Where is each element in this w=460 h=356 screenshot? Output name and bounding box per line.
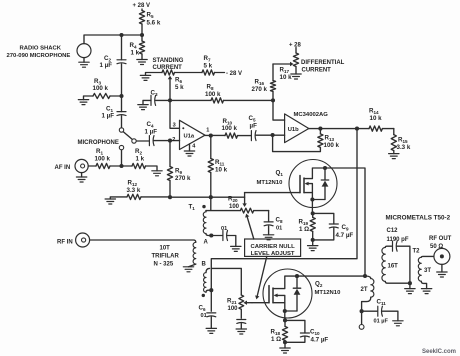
svg-text:50 Ω: 50 Ω xyxy=(430,244,443,250)
body diode of Q1 xyxy=(321,168,328,200)
node (R9/R12/carrier junction) xyxy=(168,195,172,199)
svg-text:2: 2 xyxy=(172,137,175,143)
op-amp U1a xyxy=(180,120,206,149)
node (R3/C2/C1 junction) xyxy=(119,94,123,98)
ground (microphone) xyxy=(83,58,85,63)
svg-text:C12: C12 xyxy=(387,228,399,234)
node (drains / 2T top) xyxy=(363,274,367,278)
capacitor C2 xyxy=(117,60,126,64)
svg-text:DIFFERENTIAL: DIFFERENTIAL xyxy=(301,60,345,66)
wire (C1 to switch) xyxy=(121,116,123,128)
node (output/R14 junction) xyxy=(355,127,359,131)
svg-text:1 Ω: 1 Ω xyxy=(299,226,309,233)
resistor R13 xyxy=(319,129,321,134)
svg-text:+ 28: + 28 xyxy=(289,43,302,49)
resistor R14 xyxy=(369,126,382,131)
capacitor C6 xyxy=(210,290,212,311)
potentiometer R21 xyxy=(239,295,244,309)
potentiometer R17 xyxy=(295,48,297,54)
node (output/R13 junction) xyxy=(318,127,322,131)
phasing dot (T1 winding B) xyxy=(202,294,205,297)
resistor R8 xyxy=(211,98,224,103)
node (R18/C10 top) xyxy=(283,318,287,322)
svg-text:B: B xyxy=(202,262,207,268)
svg-text:1: 1 xyxy=(206,127,209,133)
capacitor C12 xyxy=(393,241,398,251)
resistor R1 xyxy=(88,165,96,167)
wire (R6 to R7) xyxy=(175,72,203,74)
capacitor C1 xyxy=(117,112,126,116)
ground (right of C11) xyxy=(393,321,403,326)
svg-text:1 µF: 1 µF xyxy=(100,62,113,69)
node (R18/C10 bottom) xyxy=(283,340,287,344)
resistor R18 xyxy=(284,320,286,326)
svg-text:R15: R15 xyxy=(398,137,408,145)
phasing dot (T1 winding A) xyxy=(202,205,205,208)
svg-text:SeekIC.com: SeekIC.com xyxy=(422,349,456,355)
resistor R16 xyxy=(272,64,274,81)
svg-text:100 k: 100 k xyxy=(222,125,238,132)
pin 4 stub and label xyxy=(189,144,191,151)
svg-text:R8: R8 xyxy=(207,84,214,92)
wire (carrier line to R20 wiper) xyxy=(170,196,245,198)
svg-text:100: 100 xyxy=(229,204,240,210)
svg-text:4.7 µF: 4.7 µF xyxy=(336,232,354,239)
node (R19/C9 bottom) xyxy=(311,238,315,242)
node (Q2 source) xyxy=(283,309,287,313)
svg-text:100 k: 100 k xyxy=(324,142,340,149)
svg-text:C10: C10 xyxy=(310,329,320,337)
node (R1/R2/switch junction) xyxy=(119,164,123,168)
resistor R2 xyxy=(122,165,133,167)
resistor R7 xyxy=(202,70,215,75)
svg-text:100 k: 100 k xyxy=(95,156,111,163)
annotation arrow (to R20) xyxy=(247,217,254,239)
svg-text:100: 100 xyxy=(228,306,239,312)
wire (C4 to U1a pin 2) xyxy=(154,140,180,142)
svg-text:µF: µF xyxy=(250,123,258,130)
node (winding A bottom) xyxy=(209,233,213,237)
svg-text:10 k: 10 k xyxy=(370,115,383,122)
svg-text:T2: T2 xyxy=(413,249,421,255)
resistor R19 xyxy=(312,213,314,217)
winding B of T1 xyxy=(206,268,210,272)
node (Q1 drain / diode) xyxy=(323,166,327,170)
resistor R9 xyxy=(169,141,171,167)
svg-text:01: 01 xyxy=(221,226,227,232)
node (R19/C9 top) xyxy=(311,211,315,215)
ground (below R21) xyxy=(240,324,242,329)
node (C2 tap on rail) xyxy=(119,33,123,37)
ground (below C6) xyxy=(210,317,212,328)
svg-text:MC34002AG: MC34002AG xyxy=(294,112,329,118)
svg-text:Q2: Q2 xyxy=(315,281,323,289)
resistor R12 xyxy=(110,197,127,199)
svg-text:01: 01 xyxy=(276,226,282,232)
svg-text:CARRIER NULL: CARRIER NULL xyxy=(251,244,296,250)
svg-text:MICROMETALS T50-2: MICROMETALS T50-2 xyxy=(386,215,451,222)
wire (mic top to +28V rail) xyxy=(84,35,142,44)
svg-text:R18: R18 xyxy=(271,329,281,337)
svg-text:1190 pF: 1190 pF xyxy=(387,237,409,243)
svg-text:1 k: 1 k xyxy=(136,156,145,163)
svg-text:1 Ω: 1 Ω xyxy=(271,336,281,343)
wire (audio tap to R21) xyxy=(211,268,241,295)
resistor R4 xyxy=(141,35,143,41)
svg-text:5 k: 5 k xyxy=(204,63,213,70)
svg-text:RF OUT: RF OUT xyxy=(429,236,452,242)
svg-text:3: 3 xyxy=(173,123,176,129)
ground (AF IN shell) xyxy=(81,173,83,177)
winding A of T1 xyxy=(205,211,207,212)
svg-text:R11: R11 xyxy=(215,159,225,167)
svg-text:R5: R5 xyxy=(147,12,154,20)
wire (U1b output) xyxy=(309,128,369,130)
capacitor C10 xyxy=(285,320,305,333)
svg-text:MICROPHONE: MICROPHONE xyxy=(78,140,119,146)
annotation arrow (to R21) xyxy=(257,256,267,296)
wire (Q1 gate line) xyxy=(245,192,300,194)
ground (below R4) xyxy=(137,60,147,65)
svg-text:5.6 k: 5.6 k xyxy=(147,20,161,27)
svg-text:R4: R4 xyxy=(130,42,137,50)
node (winding B bottom / C6) xyxy=(209,288,213,292)
wire (Q2 source to diode) xyxy=(285,310,297,312)
svg-text:T1: T1 xyxy=(189,204,196,212)
wire (Q2 drain to 2T winding) xyxy=(297,275,365,277)
ground (RF winding) xyxy=(183,267,193,272)
capacitor .01 (winding A bypass) xyxy=(223,231,228,241)
node (U1b inverting input node) xyxy=(271,133,275,137)
svg-text:R7: R7 xyxy=(204,55,211,63)
node (Q2 drain / diode) xyxy=(295,274,299,278)
capacitor C9 xyxy=(313,213,334,224)
svg-text:270 k: 270 k xyxy=(175,175,191,182)
wire (winding A bottom to bypass cap) xyxy=(206,234,222,236)
svg-text:R1: R1 xyxy=(96,148,103,156)
node (R11/T1 junction) xyxy=(209,195,213,199)
capacitor C3 xyxy=(151,95,156,105)
resistor R15 xyxy=(393,129,395,135)
svg-text:10T: 10T xyxy=(160,246,171,252)
winding 16T of T2 xyxy=(385,246,391,247)
ground (RF OUT shell) xyxy=(441,264,443,272)
wire (switch throw to R1/R2 node) xyxy=(121,150,123,166)
ground (right of R2) xyxy=(152,171,162,176)
resistor R5 xyxy=(141,9,143,11)
svg-text:C4: C4 xyxy=(147,121,154,129)
connector RF OUT xyxy=(434,248,450,264)
svg-text:1 µF: 1 µF xyxy=(145,129,158,136)
resistor R11 xyxy=(210,136,212,159)
connector AF IN xyxy=(75,159,88,172)
ground (left of C3) xyxy=(143,100,151,104)
svg-text:R14: R14 xyxy=(369,108,379,116)
svg-text:R16: R16 xyxy=(255,79,265,87)
ground (below R19) xyxy=(312,240,314,246)
svg-text:270 k: 270 k xyxy=(252,86,268,93)
wire (bypass cap to ground) xyxy=(228,236,236,247)
ground (below R17) xyxy=(291,74,301,79)
wire (bias line down to pin 3) xyxy=(170,100,180,128)
svg-text:+ 28 V: + 28 V xyxy=(133,3,151,9)
node (R6 wiper / pin3 tap) xyxy=(168,98,172,102)
svg-text:MT12N10: MT12N10 xyxy=(257,180,284,186)
svg-text:RADIO SHACK: RADIO SHACK xyxy=(20,46,62,52)
node (R8/R16/U1b junction) xyxy=(271,98,275,102)
svg-text:U1a: U1a xyxy=(184,134,195,140)
svg-text:C11: C11 xyxy=(377,299,387,307)
ground (below C8) xyxy=(268,226,270,235)
svg-text:N - 325: N - 325 xyxy=(154,262,174,268)
wiper of R21 (to Q2 gate) xyxy=(247,302,252,304)
wire (Q1 source down) xyxy=(311,200,313,214)
capacitor (below R21) xyxy=(237,320,246,324)
svg-text:5 k: 5 k xyxy=(175,84,184,91)
resistor R3 xyxy=(93,93,110,98)
wire (Q2 source down) xyxy=(284,311,286,320)
svg-text:C9: C9 xyxy=(342,224,349,232)
svg-text:C6: C6 xyxy=(199,305,206,313)
capacitor C8 xyxy=(268,211,270,222)
ground (below R15) xyxy=(389,154,399,159)
svg-text:CURRENT: CURRENT xyxy=(302,68,332,74)
transistor Q1 (MT12N10) xyxy=(289,160,337,208)
svg-text:TRIFILAR: TRIFILAR xyxy=(152,254,180,260)
wire (U1b output down and to winding B top) xyxy=(211,129,357,291)
svg-text:- 28 V: - 28 V xyxy=(226,71,242,77)
node (2T bottom / C11) xyxy=(360,309,364,313)
winding 3T of T2 xyxy=(421,255,434,258)
wire (carrier node down to winding A) xyxy=(206,197,240,210)
svg-text:2T: 2T xyxy=(361,287,368,293)
svg-text:R19: R19 xyxy=(299,219,309,227)
wiper of R6 (arrow up from bias line) xyxy=(169,79,171,100)
svg-text:3.3 k: 3.3 k xyxy=(127,187,141,194)
wire (RF winding to ground) xyxy=(189,264,196,267)
svg-text:Q1: Q1 xyxy=(276,170,284,178)
microphone MIC1 (Radio Shack 270-090) xyxy=(77,44,91,58)
resistor R10 xyxy=(225,133,238,138)
svg-text:R9: R9 xyxy=(175,168,182,176)
body diode of Q2 xyxy=(293,276,300,311)
svg-text:1 µF: 1 µF xyxy=(102,113,115,120)
wire (winding B bottom) xyxy=(206,290,211,292)
svg-text:3T: 3T xyxy=(424,268,431,274)
svg-text:R13: R13 xyxy=(325,135,335,143)
svg-text:1 k: 1 k xyxy=(131,50,140,57)
svg-text:R6: R6 xyxy=(175,77,182,85)
wire (node down to U1b pin) xyxy=(273,100,285,120)
node (16T bottom) xyxy=(408,281,412,285)
connector RF IN xyxy=(76,233,90,247)
wire (Q1 source to diode) xyxy=(312,199,325,201)
op-amp U1b xyxy=(285,114,309,143)
wiper of R20 (to Q1 gate) xyxy=(244,193,246,204)
svg-text:STANDING: STANDING xyxy=(153,58,184,64)
ground (below 3T) xyxy=(421,289,431,294)
wire (C5 to U1b pin) xyxy=(256,134,285,136)
svg-text:R12: R12 xyxy=(128,180,138,188)
wire (Q1 drain to 2T winding) xyxy=(325,168,365,276)
svg-text:R21: R21 xyxy=(227,298,237,306)
winding RF (10T trifilar) of T1 xyxy=(193,242,196,264)
svg-text:C5: C5 xyxy=(249,115,256,123)
ground (winding A bypass) xyxy=(231,246,241,251)
capacitor C11 xyxy=(362,310,378,312)
ground (left of R6) xyxy=(140,75,150,80)
wiper of R17 (arrow right) xyxy=(273,63,290,65)
ground (below 16T) xyxy=(409,283,411,288)
potentiometer R6 xyxy=(162,70,175,75)
svg-text:U1b: U1b xyxy=(288,127,299,133)
svg-text:100 k: 100 k xyxy=(93,85,109,92)
ground (below R18) xyxy=(284,342,286,348)
svg-text:16T: 16T xyxy=(388,264,399,270)
wire (RF IN to T1) xyxy=(90,240,196,242)
svg-text:4: 4 xyxy=(192,143,196,149)
wire (feedback to inverting input) xyxy=(273,135,321,152)
terminal (carrier in) xyxy=(361,311,363,324)
svg-text:270-090 MICROPHONE: 270-090 MICROPHONE xyxy=(7,53,71,59)
svg-text:4.7 µF: 4.7 µF xyxy=(311,337,329,344)
ground (U1a pin 4) xyxy=(184,151,194,156)
svg-text:10 k: 10 k xyxy=(280,74,293,81)
ground (left of R12) xyxy=(105,199,115,204)
svg-text:3.3 k: 3.3 k xyxy=(397,144,411,151)
transistor Q2 (MT12N10) xyxy=(263,269,312,318)
svg-text:100 k: 100 k xyxy=(205,91,221,98)
svg-text:R2: R2 xyxy=(135,148,142,156)
wire (rail down to C2) xyxy=(121,35,123,60)
svg-text:LEVEL ADJUST: LEVEL ADJUST xyxy=(251,251,295,257)
switch (mic/AF select) xyxy=(119,128,123,132)
wire (U1a output) xyxy=(205,134,225,136)
svg-text:RF IN: RF IN xyxy=(57,240,73,246)
svg-text:10 k: 10 k xyxy=(215,167,228,174)
svg-text:01 µF: 01 µF xyxy=(374,319,389,325)
svg-text:R17: R17 xyxy=(280,67,290,75)
node (output/R11 junction) xyxy=(209,134,213,138)
svg-text:C3: C3 xyxy=(151,90,158,98)
node (pin2/R9 junction) xyxy=(168,139,172,143)
node (Q1 source) xyxy=(310,197,314,201)
svg-text:A: A xyxy=(204,240,209,246)
node (R5/R4 tap on rail) xyxy=(140,33,144,37)
wire (switch pole to C4) xyxy=(136,140,148,142)
winding 2T of T2 xyxy=(365,276,371,279)
svg-text:AF IN: AF IN xyxy=(55,165,71,171)
svg-text:01: 01 xyxy=(201,313,207,319)
wire (C3 to R8 line) xyxy=(156,99,211,101)
svg-text:C8: C8 xyxy=(276,217,283,225)
svg-text:MT12N10: MT12N10 xyxy=(315,290,342,296)
ground (left of R3) xyxy=(78,100,88,105)
callout box CARRIER NULL LEVEL ADJUST xyxy=(245,239,301,256)
capacitor C5 xyxy=(251,131,256,141)
capacitor C4 xyxy=(149,136,154,146)
wire (C2 to C1) xyxy=(121,64,123,112)
potentiometer R20 xyxy=(240,208,253,213)
